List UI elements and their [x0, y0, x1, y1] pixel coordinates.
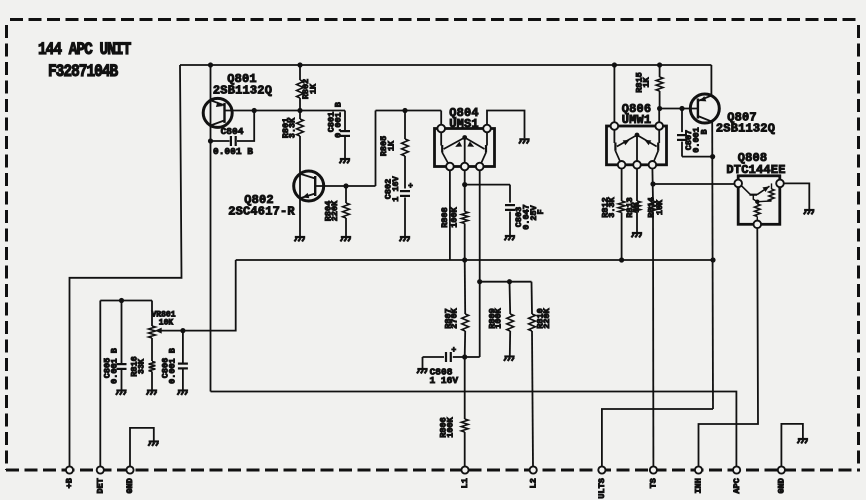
svg-text:DTC144EE: DTC144EE — [726, 163, 785, 177]
svg-text:L1: L1 — [460, 478, 470, 488]
svg-text:3.3K: 3.3K — [607, 196, 617, 217]
svg-text:APC: APC — [732, 478, 742, 493]
svg-text:10K: 10K — [159, 319, 174, 328]
svg-text:3.3K: 3.3K — [287, 117, 297, 138]
svg-text:2SB1132Q: 2SB1132Q — [213, 84, 272, 98]
svg-text:+: + — [451, 346, 456, 355]
svg-text:DET: DET — [96, 478, 106, 493]
svg-text:UMS1: UMS1 — [449, 117, 479, 131]
svg-text:L2: L2 — [528, 478, 538, 488]
svg-text:100K: 100K — [449, 206, 459, 227]
svg-text:+B: +B — [65, 478, 75, 488]
svg-text:+: + — [408, 182, 413, 191]
svg-text:2SC4617-R: 2SC4617-R — [228, 205, 295, 219]
svg-text:0.001 B: 0.001 B — [110, 348, 120, 384]
svg-text:C804: C804 — [221, 126, 244, 137]
svg-text:F: F — [536, 209, 546, 214]
svg-text:2SB1132Q: 2SB1132Q — [716, 122, 775, 136]
svg-text:270K: 270K — [450, 307, 460, 328]
svg-text:1 16V: 1 16V — [430, 375, 459, 386]
svg-text:TS: TS — [649, 478, 659, 488]
svg-text:33K: 33K — [137, 358, 147, 374]
svg-text:0.001 B: 0.001 B — [168, 348, 178, 384]
svg-text:0.001 B: 0.001 B — [213, 146, 253, 157]
svg-text:GND: GND — [777, 478, 787, 493]
svg-text:1K: 1K — [631, 202, 641, 213]
svg-text:ULTS: ULTS — [597, 478, 607, 498]
svg-text:1K: 1K — [641, 77, 651, 88]
svg-text:220K: 220K — [542, 307, 552, 328]
svg-text:1K: 1K — [386, 140, 396, 151]
svg-text:144 APC UNIT: 144 APC UNIT — [38, 40, 132, 60]
svg-text:0.001 B: 0.001 B — [334, 102, 344, 138]
svg-text:1K: 1K — [308, 83, 318, 94]
svg-text:F3287104B: F3287104B — [48, 62, 119, 82]
svg-text:B: B — [699, 129, 709, 134]
svg-text:INH: INH — [694, 478, 704, 493]
svg-text:UMW1: UMW1 — [622, 113, 652, 127]
svg-text:GND: GND — [125, 478, 135, 493]
svg-text:100K: 100K — [494, 307, 504, 328]
svg-text:100K: 100K — [446, 416, 456, 437]
svg-text:220K: 220K — [330, 200, 340, 221]
svg-text:1 16V: 1 16V — [391, 175, 401, 201]
svg-text:10K: 10K — [655, 199, 665, 215]
